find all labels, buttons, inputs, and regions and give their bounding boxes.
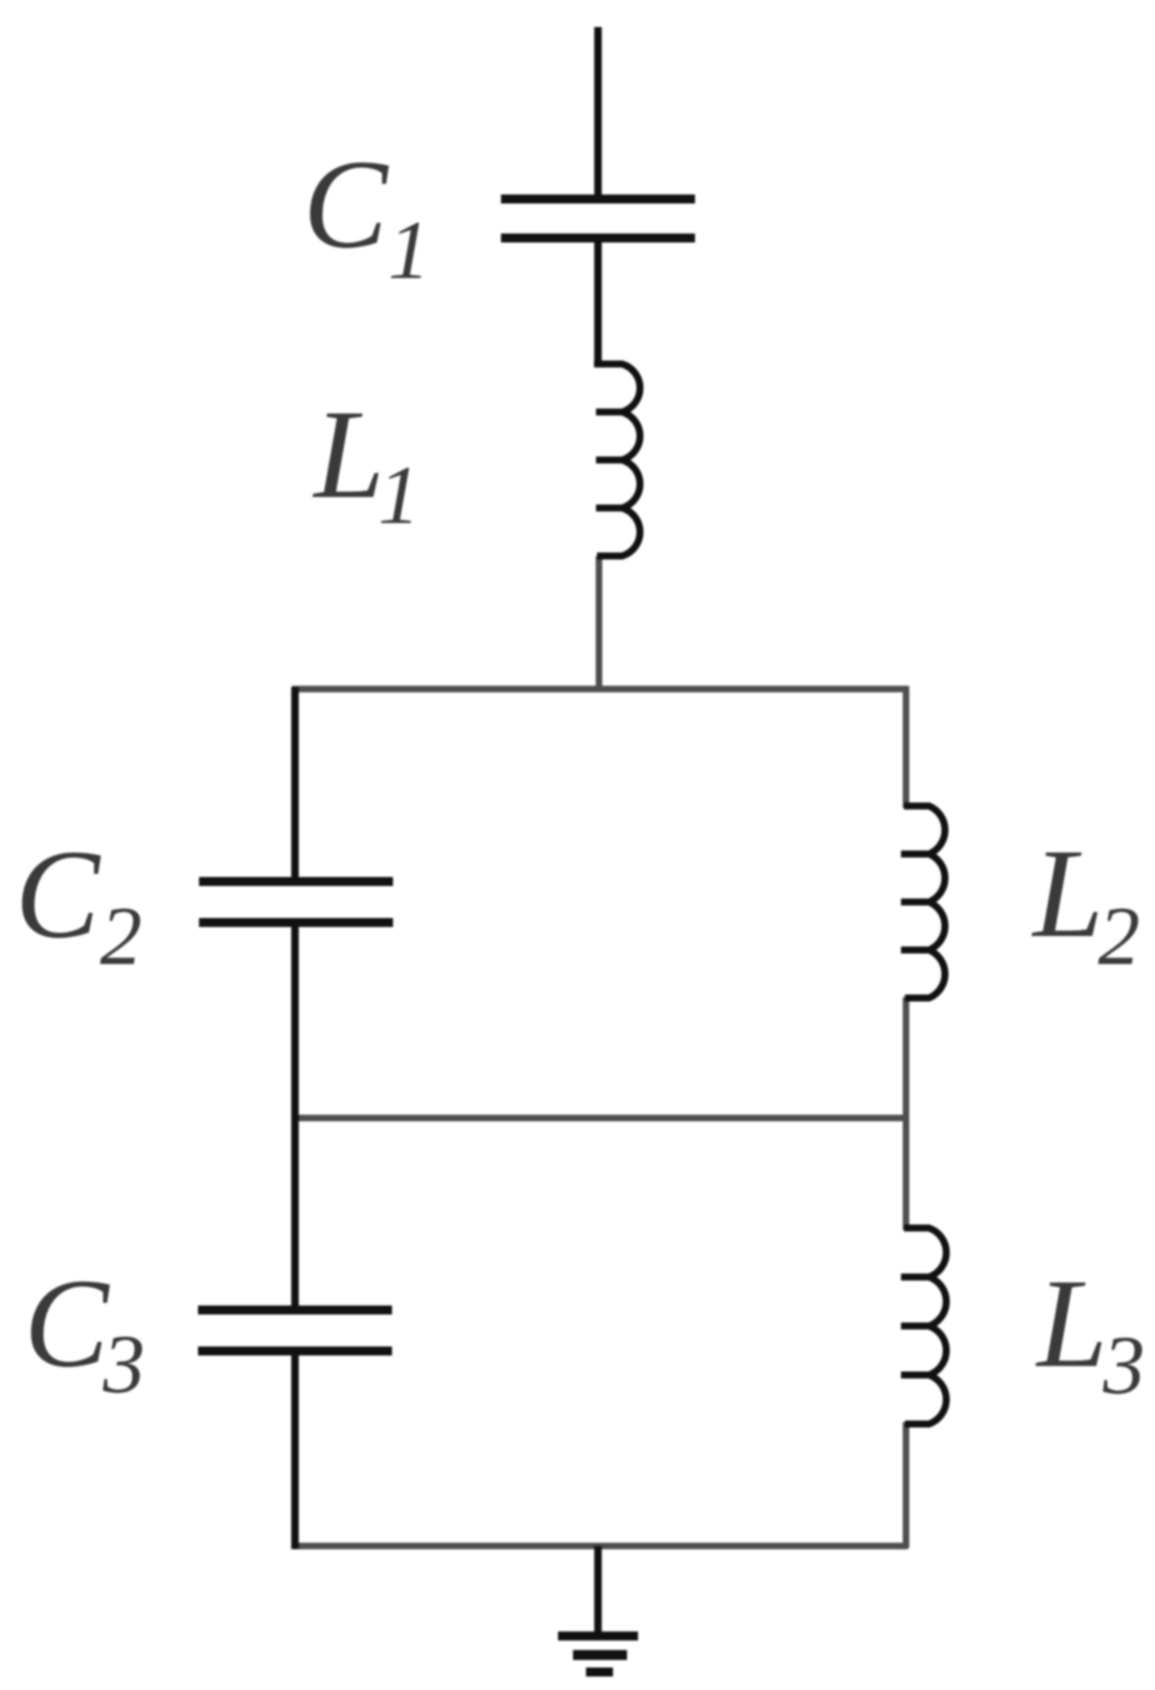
svg-text:2: 2 bbox=[1098, 890, 1140, 983]
svg-text:3: 3 bbox=[102, 1318, 145, 1411]
svg-text:C: C bbox=[24, 1254, 110, 1394]
svg-text:C: C bbox=[15, 825, 101, 965]
svg-text:L: L bbox=[1035, 1254, 1108, 1394]
svg-text:2: 2 bbox=[100, 890, 142, 983]
svg-text:L: L bbox=[1031, 824, 1104, 964]
svg-text:1: 1 bbox=[388, 204, 430, 297]
svg-text:C: C bbox=[303, 135, 389, 275]
svg-text:3: 3 bbox=[1102, 1319, 1145, 1412]
svg-text:L: L bbox=[312, 385, 385, 525]
svg-text:1: 1 bbox=[378, 449, 420, 542]
